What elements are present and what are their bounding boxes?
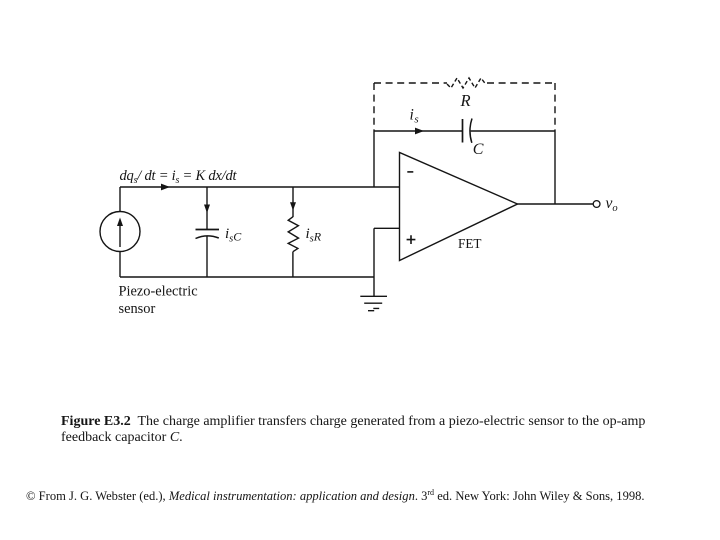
- wire: source top lead: [119, 187, 121, 212]
- ground symbol: [360, 296, 387, 310]
- wire: resistor Rs lower lead: [292, 252, 294, 277]
- current source arrow (upward): [119, 225, 121, 247]
- current arrow isC (downward): [204, 205, 210, 214]
- wire: resistor Rs branch upper lead: [292, 187, 294, 217]
- resistor R (dashed zigzag in feedback path): [447, 78, 486, 88]
- svg-text:dqs/ dt = is = K dx/dt: dqs/ dt = is = K dx/dt: [120, 168, 238, 186]
- wire: feedback capacitor left lead (y=131): [374, 130, 462, 132]
- output terminal circle: [593, 201, 600, 208]
- svg-text:is: is: [410, 107, 419, 126]
- wire: non-inverting input lead: [374, 227, 400, 229]
- svg-text:Piezo-electric: Piezo-electric: [119, 284, 198, 300]
- capacitor Cs curved bottom plate: [196, 236, 219, 239]
- wire: feedback capacitor right lead: [471, 130, 555, 132]
- wire: top rail (source to inverting input): [120, 186, 400, 188]
- current arrow on feedback wire (is): [415, 128, 424, 135]
- svg-text:sensor: sensor: [119, 301, 156, 317]
- caption Figure E3.2: [61, 414, 645, 447]
- capacitor C left plate: [462, 119, 464, 143]
- wire: dashed feedback loop top-left segment: [374, 82, 447, 84]
- wire: feedback right vertical (to output node): [554, 131, 556, 204]
- wire: capacitor Cs branch upper lead: [206, 187, 208, 230]
- wire: bottom rail: [120, 276, 374, 278]
- wire: source bottom lead: [119, 252, 121, 278]
- svg-text:isC: isC: [225, 226, 242, 245]
- resistor Rs zigzag: [288, 217, 298, 252]
- op-amp inverting input marker (minus): [407, 171, 413, 173]
- current arrow on top rail: [161, 184, 170, 191]
- svg-text:FET: FET: [458, 236, 481, 251]
- wire: capacitor Cs lower lead: [206, 236, 208, 277]
- svg-text:R: R: [460, 91, 471, 110]
- capacitor Cs top plate: [196, 229, 220, 231]
- current source circle (piezo-electric sensor): [100, 212, 140, 252]
- op-amp U1 (FET) triangle: [400, 153, 518, 261]
- wire: output lead: [518, 203, 594, 205]
- capacitor C right curved plate: [470, 119, 472, 143]
- svg-text:isR: isR: [306, 226, 322, 245]
- wire: feedback left vertical (to inverting input node): [373, 131, 375, 187]
- svg-text:vo: vo: [606, 195, 618, 214]
- wire: dashed feedback loop right vertical: [554, 83, 556, 131]
- wire: dashed feedback loop left vertical: [373, 83, 375, 131]
- wire: ground vertical: [373, 228, 375, 296]
- current arrow isR (downward): [290, 202, 296, 210]
- op-amp non-inverting input marker (plus): [407, 235, 416, 244]
- svg-text:C: C: [473, 141, 484, 158]
- wire: dashed feedback loop top-right segment: [487, 82, 555, 84]
- copyright line: [26, 488, 645, 504]
